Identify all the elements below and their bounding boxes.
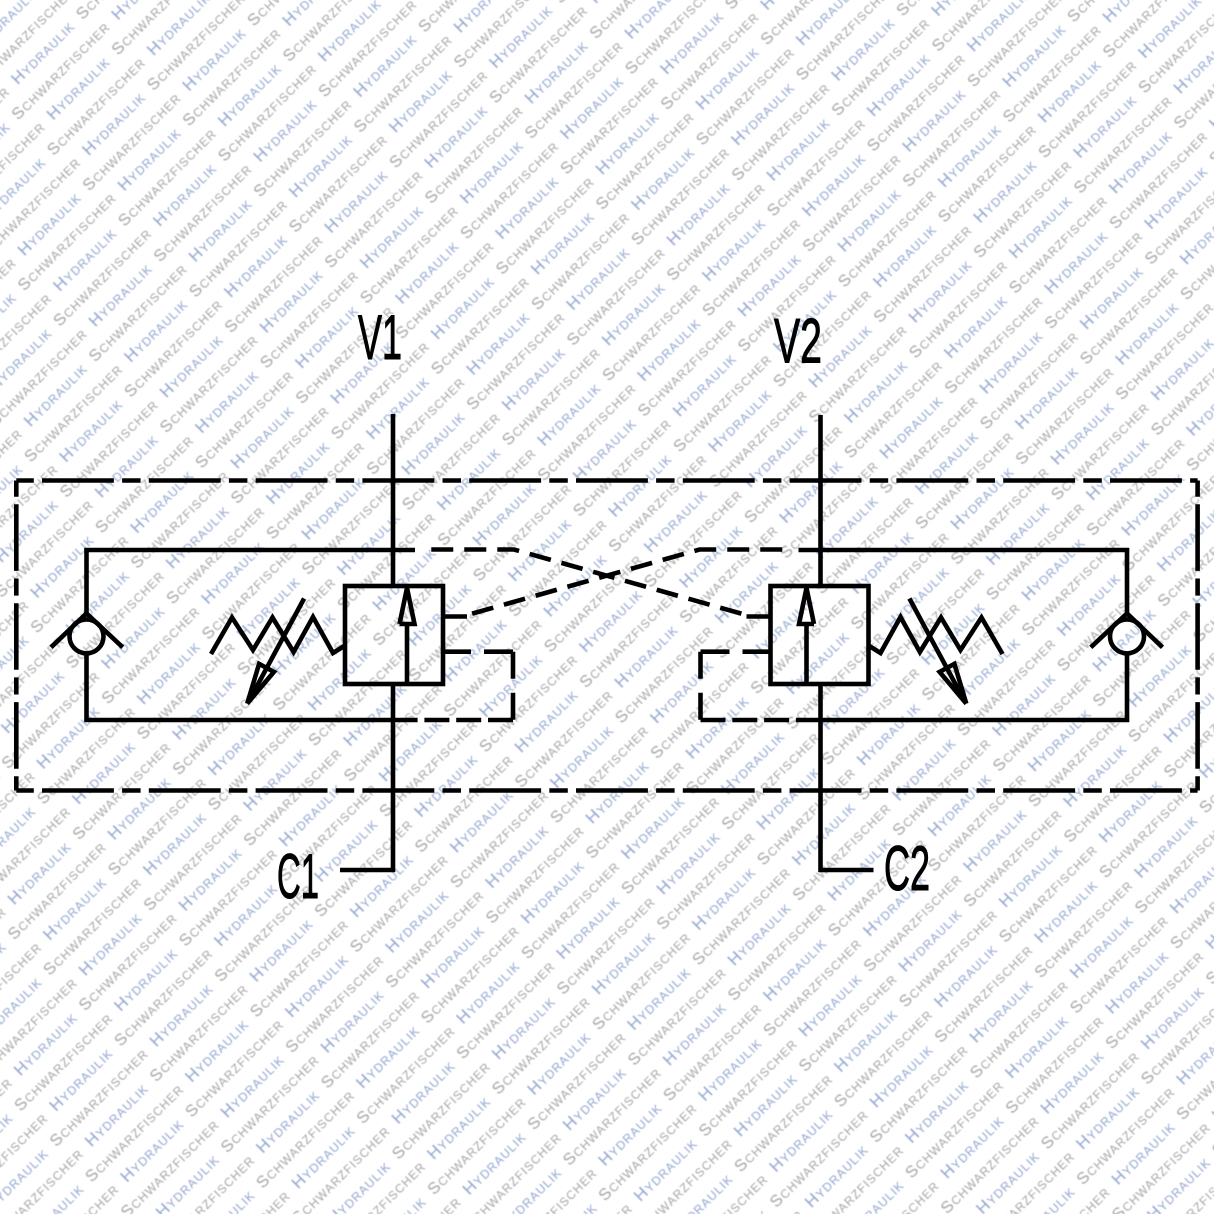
CB1 flow arrow head — [400, 588, 415, 624]
CB1 pilot stub — [443, 614, 467, 619]
CB1 drain stub — [443, 649, 471, 654]
CB2 flow arrow shaft — [804, 622, 809, 683]
wire right riser upper (to check valve CV2) — [1125, 548, 1130, 613]
wire right riser lower — [1125, 654, 1130, 722]
CB2 adjustment arrow shaft — [909, 599, 963, 700]
CB2 spring — [869, 617, 1003, 654]
counterbalance valve CB2 body — [771, 586, 869, 684]
wire top rail left — [84, 548, 415, 553]
CB1 adjustment arrow head — [247, 664, 274, 704]
CB1 adjustment arrow shaft — [250, 599, 304, 700]
svg-text:V2: V2 — [774, 307, 822, 377]
pilot line from V1 rail to CB2 (dashed) — [423, 550, 752, 617]
wire left riser lower — [84, 654, 89, 722]
svg-text:C2: C2 — [884, 834, 930, 904]
counterbalance valve CB1 body — [345, 586, 443, 684]
enclosure boundary right edge (dash-dot) — [1195, 481, 1200, 791]
wire C1 stub — [340, 868, 395, 873]
wire V1 to valve CB1 inlet — [391, 414, 396, 587]
wire CB2 outlet down to C2 — [818, 684, 823, 873]
CB2 drain dashed loop — [701, 652, 797, 720]
wire V2 to valve CB2 inlet — [818, 415, 823, 587]
enclosure boundary bottom edge (dash-dot) — [16, 788, 1197, 793]
enclosure boundary left edge (dash-dot) — [14, 481, 19, 791]
CB2 pilot stub — [747, 614, 771, 619]
CB1 flow arrow shaft — [405, 622, 410, 683]
CB2 drain stub — [743, 649, 771, 654]
check valve CV2 seat — [1091, 613, 1163, 647]
wire bottom rail left — [84, 718, 417, 723]
wire CB1 outlet down to C1 — [391, 684, 396, 873]
svg-text:V1: V1 — [358, 303, 402, 373]
check valve CV1 ball — [70, 619, 104, 653]
CB2 adjustment arrow head — [940, 664, 967, 704]
CB1 drain dashed loop — [418, 652, 514, 720]
check valve CV1 seat — [51, 613, 123, 647]
wire bottom rail right — [796, 718, 1129, 723]
svg-text:C1: C1 — [277, 842, 319, 912]
wire C2 stub — [819, 868, 874, 873]
wire top rail right — [799, 548, 1130, 553]
CB1 spring — [211, 617, 345, 654]
check valve CV2 ball — [1110, 619, 1144, 653]
enclosure boundary top edge (dash-dot) — [16, 478, 1197, 483]
pilot line from V2 rail to CB1 (dashed) — [462, 550, 791, 617]
wire left riser upper (to check valve CV1) — [84, 548, 89, 613]
CB2 flow arrow head — [799, 588, 814, 624]
